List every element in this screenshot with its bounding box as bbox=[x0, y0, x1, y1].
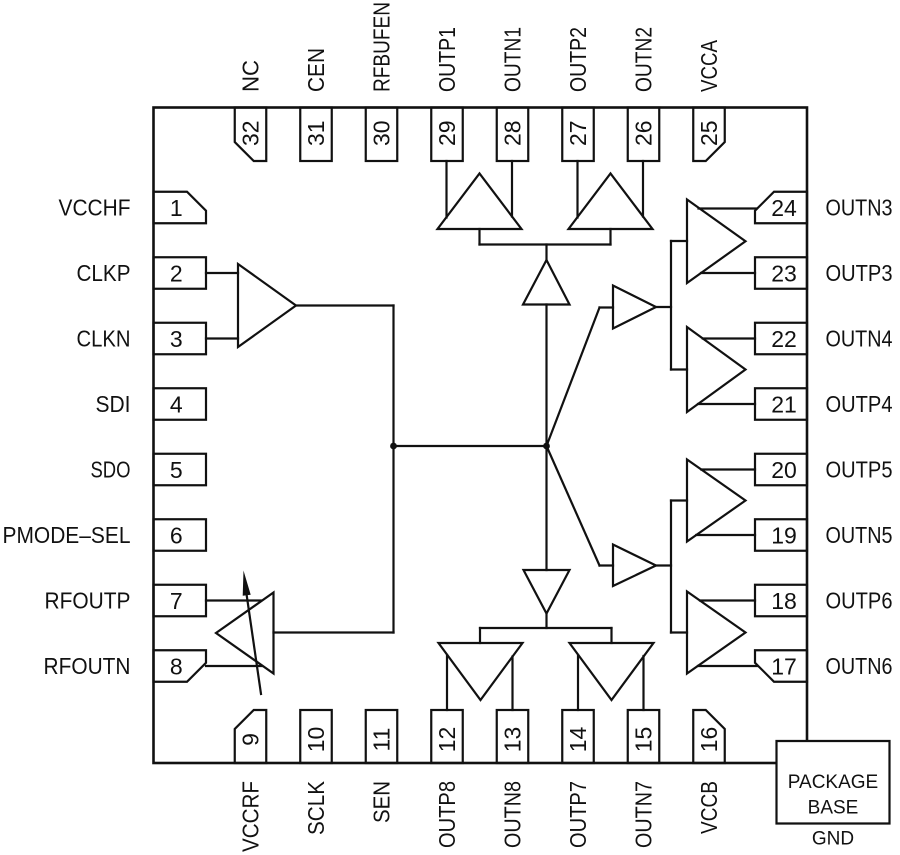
svg-text:VCCHF: VCCHF bbox=[59, 195, 131, 221]
pin 30 box (RFBUFEN) bbox=[366, 108, 398, 162]
wire OUTP8 pin12 to U8 bbox=[446, 655, 448, 710]
op-amp small buffer U10 bbox=[613, 286, 656, 329]
wire vertical trunk left bbox=[392, 306, 394, 633]
wire node to upper small buffer (diagonal) bbox=[547, 308, 600, 447]
wire top bracket stub left bbox=[478, 229, 480, 245]
svg-text:OUTP7: OUTP7 bbox=[565, 781, 591, 848]
op-amp output buffer U9 (OUT7, points down) bbox=[570, 643, 654, 700]
wire OUTP7 pin14 to U9 bbox=[577, 655, 579, 710]
svg-text:16: 16 bbox=[696, 727, 722, 753]
wire OUTN2 pin26 to U6 bbox=[642, 161, 644, 217]
svg-text:2: 2 bbox=[170, 261, 183, 287]
wire OUTN7 pin15 to U9 bbox=[642, 656, 644, 710]
wire OUTP1 pin29 to U5 bbox=[445, 161, 447, 218]
svg-text:OUTP2: OUTP2 bbox=[565, 27, 591, 92]
svg-text:5: 5 bbox=[170, 457, 183, 483]
svg-text:1: 1 bbox=[170, 195, 183, 221]
svg-text:OUTN1: OUTN1 bbox=[500, 27, 526, 92]
wire U3 to RFOUTP pin7 bbox=[206, 599, 261, 601]
svg-text:VCCRF: VCCRF bbox=[238, 781, 264, 852]
op-amp RF output buffer U3 (points left) bbox=[216, 593, 274, 674]
wire lower right bracket vertical bbox=[670, 501, 672, 633]
pin 7 box (RFOUTP) bbox=[154, 585, 207, 617]
svg-text:31: 31 bbox=[303, 120, 329, 146]
pin 25 box (VCCA) bbox=[693, 108, 725, 162]
svg-text:CLKN: CLKN bbox=[77, 326, 131, 352]
svg-text:CLKP: CLKP bbox=[77, 260, 131, 286]
svg-text:PMODE–SEL: PMODE–SEL bbox=[3, 522, 131, 548]
op-amp output buffer U12 (OUT4, points right) bbox=[687, 327, 746, 412]
svg-text:OUTN3: OUTN3 bbox=[826, 195, 893, 221]
svg-text:10: 10 bbox=[303, 727, 329, 753]
svg-text:26: 26 bbox=[631, 120, 657, 146]
svg-text:6: 6 bbox=[170, 523, 183, 549]
wire U12 to OUTN4 pin22 bbox=[703, 337, 755, 339]
svg-text:OUTP8: OUTP8 bbox=[434, 781, 460, 848]
wire U2 output right bbox=[296, 304, 394, 306]
svg-text:VCCB: VCCB bbox=[696, 781, 722, 834]
svg-text:PACKAGE: PACKAGE bbox=[788, 772, 878, 793]
wire U10 to upper bracket bbox=[656, 306, 671, 308]
svg-text:SCLK: SCLK bbox=[303, 780, 329, 835]
node junction left bbox=[390, 443, 397, 450]
svg-text:OUTP4: OUTP4 bbox=[826, 391, 893, 417]
pin 8 box (RFOUTN) bbox=[154, 650, 207, 682]
svg-text:30: 30 bbox=[369, 120, 395, 146]
svg-text:OUTP6: OUTP6 bbox=[826, 588, 893, 614]
wire CLKP pin2 to U2 bbox=[206, 272, 238, 274]
svg-text:11: 11 bbox=[369, 728, 395, 752]
pin 22 box (OUTN4) bbox=[755, 323, 807, 355]
wire center vertical up bbox=[545, 305, 547, 447]
pin 10 box (SCLK) bbox=[300, 710, 332, 763]
svg-text:13: 13 bbox=[500, 727, 526, 753]
package base paddle box bbox=[777, 741, 890, 824]
op-amp clock input buffer U2 bbox=[238, 264, 296, 347]
wire horizontal center bus bbox=[394, 445, 547, 447]
svg-text:12: 12 bbox=[434, 727, 460, 753]
svg-text:29: 29 bbox=[434, 120, 460, 146]
wire U3 to RFOUTN pin8 bbox=[206, 665, 262, 667]
svg-text:19: 19 bbox=[771, 523, 797, 549]
svg-text:OUTP1: OUTP1 bbox=[434, 27, 460, 92]
pin 16 box (VCCB) bbox=[693, 710, 725, 763]
wire OUTN1 pin28 to U5 bbox=[511, 161, 513, 217]
arrow through U3 (adjustable) bbox=[247, 596, 261, 694]
op-amp center down buffer U7 bbox=[524, 570, 570, 614]
node junction center bbox=[543, 443, 550, 450]
pin 29 box (OUTP1) bbox=[431, 108, 463, 162]
op-amp output buffer U6 (OUT2, points up) bbox=[569, 174, 653, 230]
svg-text:23: 23 bbox=[771, 261, 797, 287]
pin 9 box (VCCRF) bbox=[235, 710, 267, 763]
svg-text:32: 32 bbox=[238, 120, 264, 146]
svg-text:OUTN6: OUTN6 bbox=[826, 653, 893, 679]
svg-text:SDO: SDO bbox=[91, 457, 131, 483]
svg-text:CEN: CEN bbox=[303, 48, 329, 92]
svg-text:GND: GND bbox=[812, 829, 854, 850]
wire lower bracket stub top bbox=[671, 499, 687, 501]
svg-text:OUTN7: OUTN7 bbox=[631, 781, 657, 848]
svg-text:OUTN5: OUTN5 bbox=[826, 522, 893, 548]
op-amp output buffer U14 (OUT5, points right) bbox=[687, 460, 746, 542]
pin 21 box (OUTP4) bbox=[755, 388, 807, 420]
svg-text:3: 3 bbox=[170, 326, 183, 352]
svg-text:18: 18 bbox=[771, 588, 797, 614]
svg-text:OUTP5: OUTP5 bbox=[826, 457, 893, 483]
wire U4 apex to top bracket bbox=[545, 245, 547, 261]
wire U7 apex to bottom bracket bbox=[545, 614, 547, 629]
wire node to lower small buffer (diagonal) bbox=[547, 446, 600, 566]
svg-text:RFBUFEN: RFBUFEN bbox=[369, 2, 395, 92]
svg-text:9: 9 bbox=[238, 733, 264, 746]
svg-text:OUTN8: OUTN8 bbox=[500, 781, 526, 848]
op-amp center up buffer U4 bbox=[523, 260, 570, 305]
pin 17 box (OUTN6) bbox=[755, 650, 807, 682]
wire U13 to lower bracket bbox=[656, 564, 671, 566]
svg-text:4: 4 bbox=[170, 392, 183, 418]
pin 2 box (CLKP) bbox=[154, 257, 207, 289]
pin 24 box (OUTN3) bbox=[755, 192, 807, 224]
svg-text:SDI: SDI bbox=[96, 391, 131, 417]
svg-text:OUTN2: OUTN2 bbox=[631, 27, 657, 92]
wire trunk to RF buffer base bbox=[274, 631, 394, 633]
pin 15 box (OUTN7) bbox=[628, 710, 660, 763]
svg-text:RFOUTP: RFOUTP bbox=[45, 588, 131, 614]
svg-text:BASE: BASE bbox=[808, 798, 859, 819]
svg-text:7: 7 bbox=[170, 588, 183, 614]
svg-text:SEN: SEN bbox=[369, 781, 395, 823]
pin 14 box (OUTP7) bbox=[562, 710, 594, 763]
pin 6 box (PMODE-SEL) bbox=[154, 519, 207, 551]
wire bottom bracket stub left bbox=[479, 628, 481, 643]
wire U12 to OUTP4 pin21 bbox=[698, 403, 755, 405]
wire bottom bracket stub right bbox=[610, 628, 612, 643]
wire bottom bracket horizontal bbox=[480, 627, 612, 629]
wire U14 to OUTP5 pin20 bbox=[701, 468, 755, 470]
wire upper bracket stub top bbox=[671, 240, 687, 242]
svg-text:20: 20 bbox=[771, 457, 797, 483]
wire center vertical down bbox=[545, 446, 547, 570]
op-amp output buffer U11 (OUT3, points right) bbox=[687, 200, 746, 284]
pin 28 box (OUTN1) bbox=[497, 108, 529, 162]
IC body outline U1 bbox=[154, 108, 808, 764]
svg-text:21: 21 bbox=[771, 392, 797, 418]
wire lower bracket stub bottom bbox=[671, 631, 687, 633]
op-amp output buffer U8 (OUT8, points down) bbox=[439, 643, 523, 700]
op-amp output buffer U15 (OUT6, points right) bbox=[687, 592, 746, 674]
wire OUTP2 pin27 to U6 bbox=[576, 161, 578, 218]
wire OUTN8 pin13 to U8 bbox=[511, 657, 513, 711]
svg-text:22: 22 bbox=[771, 326, 797, 352]
svg-text:OUTN4: OUTN4 bbox=[826, 326, 893, 352]
svg-text:NC: NC bbox=[238, 60, 264, 92]
pin 27 box (OUTP2) bbox=[562, 108, 594, 162]
wire U15 to OUTN6 pin17 bbox=[698, 665, 757, 667]
pin 26 box (OUTN2) bbox=[628, 108, 660, 162]
pin 19 box (OUTN5) bbox=[755, 519, 807, 551]
op-amp output buffer U5 (OUT1, points up) bbox=[438, 174, 522, 230]
wire upper right bracket vertical bbox=[670, 241, 672, 370]
wire U11 to OUTP3 pin23 bbox=[701, 272, 755, 274]
wire U11 to OUTN3 pin24 bbox=[699, 207, 757, 209]
svg-text:27: 27 bbox=[565, 120, 591, 146]
svg-text:14: 14 bbox=[565, 727, 591, 753]
svg-text:15: 15 bbox=[631, 727, 657, 753]
svg-text:VCCA: VCCA bbox=[696, 39, 722, 92]
wire top bracket horizontal bbox=[480, 243, 611, 245]
svg-text:RFOUTN: RFOUTN bbox=[44, 653, 131, 679]
pin 20 box (OUTP5) bbox=[755, 454, 807, 486]
pin 3 box (CLKN) bbox=[154, 323, 207, 355]
wire U14 to OUTN5 pin19 bbox=[696, 534, 755, 536]
wire CLKN pin3 to U2 bbox=[206, 337, 238, 339]
pin 4 box (SDI) bbox=[154, 388, 207, 420]
pin 1 box (VCCHF) bbox=[154, 192, 207, 224]
wire top bracket stub right bbox=[609, 229, 611, 245]
wire U15 to OUTP6 pin18 bbox=[700, 599, 755, 601]
svg-text:28: 28 bbox=[500, 120, 526, 146]
pin 31 box (CEN) bbox=[300, 108, 332, 162]
svg-text:25: 25 bbox=[696, 120, 722, 146]
svg-text:OUTP3: OUTP3 bbox=[826, 260, 893, 286]
op-amp small buffer U13 bbox=[613, 545, 656, 587]
pin 23 box (OUTP3) bbox=[755, 257, 807, 289]
pin 32 box (NC) bbox=[235, 108, 267, 162]
svg-text:17: 17 bbox=[771, 654, 797, 680]
svg-text:24: 24 bbox=[771, 195, 797, 221]
pin 5 box (SDO) bbox=[154, 454, 207, 486]
wire upper bracket stub bottom bbox=[671, 368, 687, 370]
pin 18 box (OUTP6) bbox=[755, 585, 807, 617]
svg-text:8: 8 bbox=[170, 654, 183, 680]
pin 12 box (OUTP8) bbox=[431, 710, 463, 763]
pin 11 box (SEN) bbox=[366, 710, 398, 763]
pin 13 box (OUTN8) bbox=[497, 710, 529, 763]
